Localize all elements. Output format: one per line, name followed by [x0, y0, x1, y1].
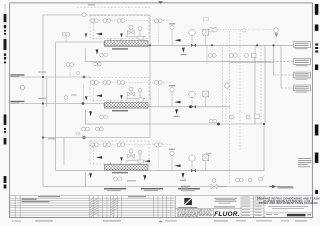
drawing number bold — [287, 214, 306, 216]
exchanger2 drain circle — [100, 115, 104, 119]
left inlet line 1 — [20, 76, 90, 78]
down arrow below line — [182, 173, 185, 178]
header line train1 top — [43, 14, 150, 16]
main vertical left x43 — [42, 15, 44, 187]
instrument pair right of box — [155, 19, 163, 23]
control valve cluster — [126, 87, 145, 98]
bottom border center tick — [158, 220, 163, 222]
header vertical x255 — [254, 45, 256, 124]
train2 feed instrument pair B — [94, 62, 102, 66]
bottom long line — [43, 186, 272, 188]
small circle left — [76, 132, 79, 135]
instrument on bottom line — [248, 178, 252, 182]
flag leader lines — [269, 60, 294, 62]
signal line y29.5 — [208, 29, 272, 31]
train2 dashed package box — [90, 77, 149, 100]
exchanger E-2 label — [112, 110, 128, 111]
train1 dashed package box — [90, 16, 149, 39]
instrument pair below line A — [209, 54, 217, 58]
train3 dashed package box — [90, 141, 149, 164]
flow element diamond — [189, 29, 195, 35]
flag F3 — [294, 72, 311, 80]
junction dot flag1 line — [211, 44, 213, 46]
vertical x55.5 — [55, 42, 57, 171]
junction dot x264 return — [263, 123, 265, 125]
vertical divider bottom of stamp section — [213, 209, 215, 218]
instrument pair right of box — [155, 81, 163, 85]
signal dashes — [94, 83, 173, 102]
bold arrow on line — [175, 101, 181, 104]
drawing title text lines — [257, 196, 320, 205]
shared display square — [203, 155, 209, 161]
train2 feed small circle — [76, 71, 79, 74]
exchanger3 outlet line — [84, 172, 86, 187]
signal dashes between instruments — [94, 21, 173, 40]
signal circle A — [209, 28, 213, 32]
column lines left half — [14, 196, 16, 218]
train2 main line — [104, 106, 230, 108]
revision table header texts — [38, 196, 60, 197]
top border center tick — [158, 1, 163, 3]
logo caption line — [178, 207, 198, 208]
line label near x43 line2 — [38, 98, 46, 99]
exchanger nozzle box — [138, 36, 143, 39]
flag F1 — [294, 42, 311, 50]
bottom line end arrow — [272, 185, 277, 189]
equipment name label C — [178, 188, 200, 189]
instrument pair 1 — [91, 81, 99, 85]
vertical x46.8 — [46, 77, 48, 107]
signal dashed lines top right — [208, 30, 276, 184]
bold arrow into train — [96, 94, 102, 97]
instruments right on return line — [230, 114, 260, 119]
train2 feed instrument pair A — [66, 63, 74, 77]
continuation note above title block — [270, 186, 274, 188]
note above title block — [181, 186, 190, 187]
instrument pair 3 — [117, 19, 125, 23]
exchanger nozzle ticks — [111, 38, 122, 41]
svg-text:PIPING AND INSTRUMENTATION DIA: PIPING AND INSTRUMENTATION DIAGRAM — [259, 201, 319, 205]
train2 feed junction — [83, 76, 86, 79]
signal dashes — [94, 145, 173, 164]
train3 main line — [56, 170, 265, 172]
confidentiality fine print block — [177, 209, 212, 217]
footer texts below border — [12, 221, 21, 222]
vertical x264 right loop — [263, 124, 265, 171]
left inlet flag 1 text — [11, 74, 25, 77]
circle on header line — [82, 13, 86, 17]
small note above stamp section — [218, 186, 227, 187]
revision table outline — [10, 196, 176, 218]
company address text lines — [214, 198, 237, 208]
equipment name label B — [141, 188, 163, 189]
feed line label — [48, 138, 56, 139]
vertical x64 feeder — [63, 138, 65, 165]
bold arrow on line — [175, 165, 181, 168]
instrument pair 1 — [91, 19, 99, 23]
instrument pair 2 — [103, 19, 111, 23]
exchanger3 drain circle — [114, 177, 118, 181]
instrument pair 3 — [117, 81, 125, 85]
vertical x281 flag bracket — [280, 45, 282, 88]
train1 feed down arrow — [85, 34, 88, 38]
small down arrow in box — [120, 34, 123, 38]
instrument stack above line — [169, 149, 175, 171]
train2 feed down arrow — [85, 96, 88, 100]
dotted vertical x240 — [239, 30, 241, 150]
exchanger1 drain arrow — [96, 50, 99, 55]
dotted vertical x222.5 — [222, 47, 224, 124]
revision entry text r2 — [22, 201, 50, 202]
column lines right half — [113, 196, 115, 218]
shared display square — [203, 91, 209, 97]
instrument below line C — [245, 53, 256, 57]
diamond on signal drop — [224, 83, 230, 89]
title divider — [264, 212, 312, 214]
title block outline — [175, 196, 312, 218]
junction dot feed line — [42, 136, 44, 138]
left margin fold line — [4, 4, 6, 140]
small circle on left line — [20, 85, 24, 89]
instrument stack above line — [169, 23, 175, 45]
control valve cluster — [126, 25, 145, 36]
drain valve on bottom line — [211, 179, 217, 189]
instrument pair on return line — [209, 119, 217, 123]
flag2 leader from header — [230, 62, 273, 64]
extra bold arrow train3 — [145, 160, 151, 163]
top signal tag — [88, 4, 95, 5]
exchanger E-1 label — [112, 48, 128, 49]
right edge registration dashes — [315, 4, 319, 194]
down arrow below line — [182, 48, 185, 53]
feed junction circle — [82, 136, 86, 140]
subtitle text lines — [268, 206, 308, 209]
left inlet line 2 — [20, 104, 104, 107]
train3 feed line y137.5 — [43, 137, 150, 139]
instrument pair on bottom line — [236, 178, 244, 182]
exchanger E-2 body — [105, 103, 149, 109]
flag F2 — [294, 59, 311, 67]
exchanger E-1 body — [105, 41, 149, 47]
exchanger nozzle box — [138, 160, 143, 163]
down arrow below line — [175, 109, 178, 114]
exchanger nozzle ticks — [111, 100, 122, 103]
exchanger3 drain arrow — [89, 173, 92, 178]
dotted vertical x226 — [225, 95, 227, 124]
exchanger2 drain arrow — [89, 111, 92, 116]
instrument stack above line — [169, 85, 175, 107]
instrument pair 1 — [91, 143, 99, 147]
instrument with tail on bottom line — [259, 176, 265, 181]
company logo square — [184, 198, 192, 205]
right pair signal drop — [158, 85, 160, 107]
small down arrow in box — [120, 157, 123, 161]
slash marks in revision status cells — [89, 198, 117, 217]
revision entry text r1 — [22, 199, 37, 200]
scale/dwg row — [266, 214, 272, 215]
bottom line end label — [278, 187, 294, 189]
instruments on train3 feed line — [76, 127, 103, 139]
title block small cells rows — [241, 199, 264, 215]
right pair signal drop — [158, 147, 160, 171]
right pair signal drop — [158, 23, 160, 45]
junction dot left line 1 — [42, 76, 44, 78]
line label near x43 line1 — [38, 72, 46, 73]
train1 main line — [104, 44, 294, 46]
bold arrow on line — [175, 39, 181, 42]
exchanger E-3 body — [105, 164, 149, 170]
bold arrow into train — [96, 33, 102, 36]
instrument pair 2 — [103, 81, 111, 85]
horizontal divider in stamp section — [175, 208, 241, 210]
signal circle B — [274, 28, 279, 33]
exchanger1 outlet line — [85, 48, 269, 61]
flow element — [189, 155, 195, 161]
instrument pair above feed — [82, 127, 90, 131]
shared display square — [203, 17, 208, 20]
equipment name label A — [104, 188, 126, 189]
reference note block right side — [298, 158, 312, 167]
exchanger E-3 label — [112, 172, 128, 173]
top signal dashed line — [77, 7, 150, 9]
exchanger nozzle ticks — [111, 162, 122, 165]
vertical x150 — [149, 15, 151, 138]
train1 feed instrument pair — [62, 32, 70, 41]
junction dot — [189, 105, 192, 108]
junction dot on return line — [217, 123, 220, 126]
stamp/logo section divider — [240, 196, 242, 218]
svg-text:FLUOR.: FLUOR. — [214, 211, 240, 218]
instrument pair 3 — [117, 143, 125, 147]
instrument pair right of box — [155, 143, 163, 147]
left edge registration dashes — [4, 14, 7, 189]
small down arrow in box — [120, 95, 123, 99]
row lines — [10, 197, 176, 199]
feed corner to exchanger1 — [56, 42, 105, 45]
left inlet flag 2 text — [11, 101, 25, 104]
bold arrow into train — [96, 156, 102, 159]
control valve cluster — [126, 149, 145, 160]
header vertical x265 — [264, 45, 266, 124]
exchanger nozzle box — [138, 98, 143, 101]
vertical x273.5 — [273, 45, 275, 75]
junction dot left line 2 — [42, 102, 44, 104]
exchanger2 outlet line — [85, 110, 150, 124]
instrument pair 2 — [103, 143, 111, 147]
flow element — [189, 91, 195, 97]
flag F4 — [294, 85, 311, 93]
instrument pair below line B — [230, 54, 238, 58]
small note text mid-right — [206, 152, 212, 155]
mid return line y124 — [150, 123, 264, 125]
instrument pair above feed B — [96, 127, 104, 131]
dotted vertical x229.5 — [229, 31, 231, 183]
drop from square — [205, 35, 207, 45]
small cell label texts — [242, 197, 262, 217]
exchanger1 drain circle — [100, 53, 104, 57]
junction dot x150 — [149, 44, 151, 46]
